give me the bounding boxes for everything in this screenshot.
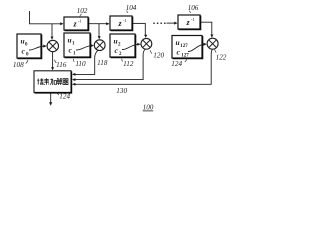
svg-text:124: 124 (171, 60, 182, 68)
svg-text:112: 112 (123, 60, 134, 68)
svg-text:100: 100 (143, 104, 154, 112)
svg-text:130: 130 (116, 87, 127, 95)
svg-text:124: 124 (59, 92, 70, 100)
svg-text:127: 127 (180, 44, 188, 49)
svg-text:104: 104 (126, 4, 137, 12)
svg-text:102: 102 (77, 7, 88, 15)
svg-text:120: 120 (153, 52, 164, 60)
svg-text:u: u (176, 38, 180, 47)
svg-text:u: u (68, 36, 72, 45)
svg-text:116: 116 (56, 61, 67, 69)
svg-text:127: 127 (181, 53, 189, 58)
svg-text:118: 118 (97, 59, 108, 67)
svg-text:110: 110 (75, 60, 86, 68)
svg-text:u: u (21, 37, 25, 46)
svg-text:u: u (114, 37, 118, 46)
svg-text:108: 108 (13, 61, 24, 69)
svg-text:122: 122 (216, 53, 227, 61)
